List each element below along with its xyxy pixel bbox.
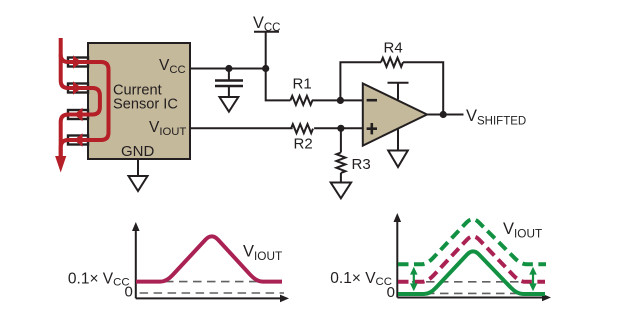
wire IC VIOUT pin to R2 bbox=[190, 127, 293, 129]
svg-text:VIOUT: VIOUT bbox=[243, 243, 282, 264]
resistor R3 bbox=[336, 153, 345, 173]
capacitor bypass bbox=[228, 69, 230, 80]
right graph left green double arrow bbox=[410, 267, 418, 291]
wire VCC supply down to R1 bbox=[266, 32, 291, 101]
left graph VIOUT curve bbox=[136, 236, 282, 281]
resistor R2 bbox=[291, 124, 313, 133]
arrowhead into pin A bbox=[73, 55, 82, 68]
right graph dashed line zero level bbox=[398, 292, 526, 294]
wire down to R3 bbox=[340, 128, 342, 152]
svg-text:0: 0 bbox=[387, 284, 395, 301]
node output junction bbox=[440, 111, 447, 118]
VCC supply bar bbox=[254, 31, 279, 33]
right graph dashed crimson curve bbox=[398, 236, 545, 281]
svg-text:Sensor IC: Sensor IC bbox=[113, 97, 178, 113]
arrowhead out of pin C bbox=[74, 108, 83, 121]
left graph x axis bbox=[136, 297, 282, 299]
current sensor IC body bbox=[88, 43, 190, 159]
op-amp plus sign bbox=[367, 123, 377, 134]
wire R2 to non-inverting input bbox=[314, 127, 363, 129]
current loop pin A to pin D inside IC bbox=[72, 62, 109, 140]
node capacitor junction bbox=[225, 65, 232, 72]
node non-inverting input junction bbox=[337, 125, 344, 132]
svg-text:R1: R1 bbox=[293, 76, 312, 93]
ground symbol capacitor bbox=[220, 97, 239, 112]
pin box B bbox=[68, 84, 88, 93]
right graph right green double arrow bbox=[529, 267, 537, 291]
svg-text:0: 0 bbox=[124, 284, 132, 301]
op-amp U1 bbox=[363, 84, 427, 146]
current path input wire bbox=[61, 38, 80, 88]
current path exit from pin C bbox=[61, 115, 78, 161]
arrowhead current output down bbox=[55, 156, 66, 173]
op-amp positive supply tick bbox=[388, 83, 409, 100]
resistor R4 bbox=[381, 58, 403, 67]
svg-text:0.1× VCC: 0.1× VCC bbox=[68, 271, 130, 289]
arrowhead into pin B bbox=[73, 81, 82, 94]
wire output bbox=[427, 114, 464, 116]
svg-text:R3: R3 bbox=[352, 156, 371, 173]
wire op-amp to negative supply ground bbox=[397, 129, 399, 151]
ground symbol under IC bbox=[137, 159, 139, 176]
wire R3 to ground bbox=[340, 173, 342, 183]
wire IC VCC pin to supply node bbox=[190, 68, 266, 70]
svg-text:VIOUT: VIOUT bbox=[503, 220, 542, 241]
ground symbol op-amp bbox=[388, 151, 408, 168]
svg-text:R4: R4 bbox=[384, 40, 403, 57]
current loop pin B to pin C inside IC bbox=[72, 88, 100, 115]
right graph dashed green curve bbox=[398, 219, 546, 264]
current path branch into pin A bbox=[61, 55, 80, 63]
wire R4 to output node bbox=[403, 62, 443, 114]
node inverting input junction bbox=[337, 97, 344, 104]
wire feedback up from inverting node bbox=[340, 62, 381, 100]
node VCC junction bbox=[262, 65, 269, 72]
right graph x axis bbox=[397, 297, 544, 299]
left graph y axis bbox=[135, 229, 137, 298]
right graph y axis bbox=[396, 220, 398, 298]
left graph dashed line 0.1 VCC level bbox=[137, 281, 281, 283]
svg-text:R2: R2 bbox=[294, 136, 313, 153]
resistor R1 bbox=[290, 96, 312, 105]
svg-text:VSHIFTED: VSHIFTED bbox=[466, 107, 526, 128]
left graph dashed line zero level bbox=[140, 292, 284, 294]
ground symbol R3 bbox=[331, 183, 351, 199]
pin box D bbox=[68, 136, 88, 145]
wire R1 to inverting input bbox=[312, 99, 364, 101]
op-amp minus sign bbox=[367, 99, 377, 102]
current path exit from pin D bbox=[61, 140, 78, 156]
svg-text:GND: GND bbox=[121, 143, 155, 160]
pin box A bbox=[68, 58, 88, 67]
right graph solid green curve bbox=[398, 251, 545, 294]
right graph dashed line 0.1 VCC level bbox=[398, 281, 525, 283]
pin box C bbox=[68, 110, 88, 119]
svg-text:0.1× VCC: 0.1× VCC bbox=[330, 270, 392, 288]
arrowhead out of pin D bbox=[74, 133, 83, 146]
